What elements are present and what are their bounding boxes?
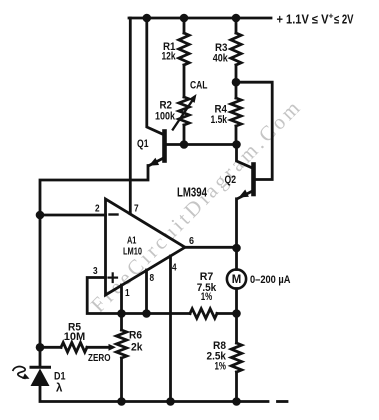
svg-text:1: 1 bbox=[125, 287, 130, 299]
svg-text:Q1: Q1 bbox=[137, 138, 149, 150]
svg-text:+: + bbox=[329, 11, 334, 21]
svg-text:2k: 2k bbox=[131, 342, 143, 354]
svg-text:LM394: LM394 bbox=[177, 185, 208, 200]
svg-text:10M: 10M bbox=[64, 331, 86, 343]
svg-text:+ 1.1V ≤ V: + 1.1V ≤ V bbox=[277, 13, 330, 27]
svg-text:2: 2 bbox=[95, 203, 100, 215]
svg-text:7: 7 bbox=[134, 203, 139, 215]
svg-text:A1: A1 bbox=[127, 236, 137, 247]
svg-text:100k: 100k bbox=[155, 111, 176, 123]
svg-text:D1: D1 bbox=[54, 371, 66, 383]
svg-text:1.5k: 1.5k bbox=[211, 114, 228, 126]
svg-text:4: 4 bbox=[172, 262, 177, 274]
svg-text:1%: 1% bbox=[201, 291, 213, 303]
svg-text:6: 6 bbox=[189, 235, 194, 247]
svg-text:40k: 40k bbox=[213, 53, 229, 65]
svg-text:3: 3 bbox=[93, 265, 98, 277]
svg-text:8: 8 bbox=[150, 272, 155, 284]
svg-text:R6: R6 bbox=[129, 330, 142, 342]
svg-text:≤ 2V: ≤ 2V bbox=[334, 13, 354, 27]
svg-text:CAL: CAL bbox=[190, 80, 208, 92]
svg-text:ZERO: ZERO bbox=[88, 352, 111, 364]
svg-text:M: M bbox=[232, 274, 242, 286]
svg-text:Q2: Q2 bbox=[225, 174, 237, 186]
svg-text:1%: 1% bbox=[215, 361, 227, 373]
svg-text:λ: λ bbox=[56, 383, 63, 395]
svg-text:LM10: LM10 bbox=[123, 247, 142, 258]
svg-text:0–200 µA: 0–200 µA bbox=[250, 274, 291, 286]
svg-text:12k: 12k bbox=[162, 51, 177, 63]
